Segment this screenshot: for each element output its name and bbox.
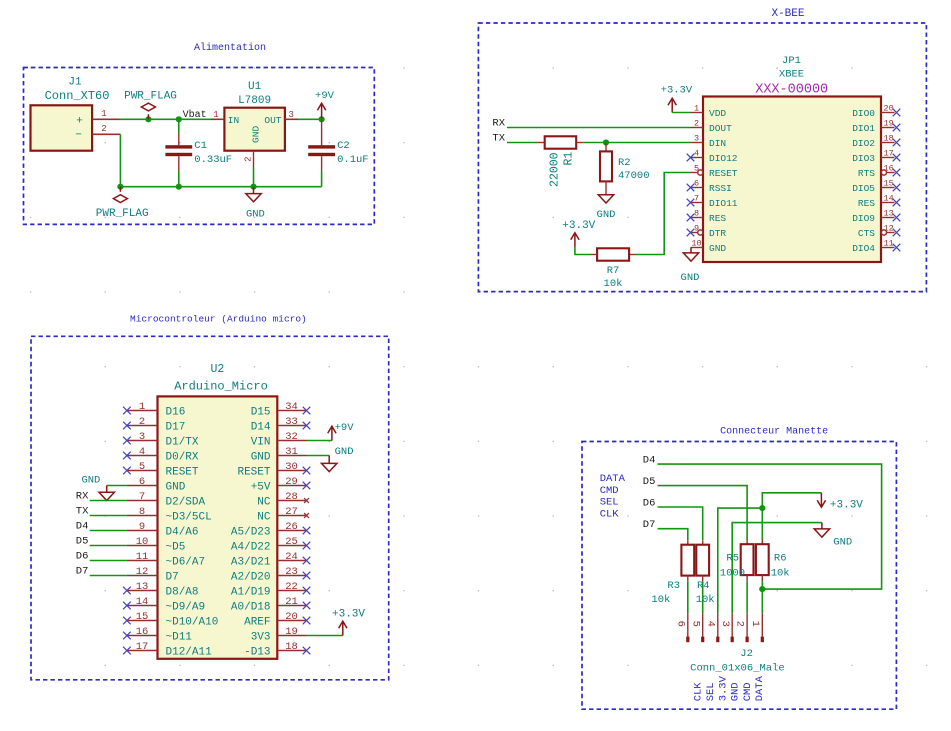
no-connect X on JP1 pin 19 [893, 124, 901, 132]
svg-text:R6: R6 [774, 552, 787, 564]
svg-text:D6: D6 [643, 498, 656, 510]
svg-text:GND: GND [166, 482, 186, 494]
JP1 pin 9 DTR [691, 232, 698, 234]
svg-text:~D5: ~D5 [166, 542, 186, 554]
svg-text:A5/D23: A5/D23 [231, 527, 271, 539]
wire net D7 to U2 [90, 575, 127, 577]
svg-text:11: 11 [884, 239, 894, 249]
ground symbol GND (Alimentation) [253, 187, 255, 194]
no-connect X on JP1 pin 15 [893, 184, 901, 192]
svg-text:32: 32 [285, 431, 298, 443]
svg-text:25: 25 [285, 536, 298, 548]
junction rail at J1 branch [117, 184, 123, 190]
junction at +9V node [319, 116, 325, 122]
svg-text:DIO0: DIO0 [852, 108, 875, 119]
svg-text:+3.3V: +3.3V [661, 85, 693, 97]
no-connect X on U2 pin 26 [303, 527, 311, 535]
svg-text:3: 3 [694, 134, 699, 144]
svg-text:D17: D17 [166, 422, 186, 434]
svg-text:1: 1 [213, 110, 218, 120]
svg-text:D6: D6 [76, 551, 89, 563]
svg-text:C2: C2 [337, 140, 350, 152]
svg-text:5: 5 [139, 461, 145, 473]
no-connect X on U2 pin 34 [303, 407, 311, 415]
svg-text:U2: U2 [210, 363, 224, 376]
svg-text:~D9/A9: ~D9/A9 [166, 602, 206, 614]
svg-text:NC: NC [257, 497, 271, 509]
NC mark on U2 pin 27 [304, 513, 309, 518]
svg-text:28: 28 [285, 491, 298, 503]
svg-text:PWR_FLAG: PWR_FLAG [96, 208, 149, 220]
connector J1 [31, 105, 93, 150]
no-connect X on JP1 pin 16 [893, 169, 901, 177]
svg-text:RX: RX [492, 118, 505, 130]
svg-text:D5: D5 [76, 536, 89, 548]
U1 pin 2 GND [253, 151, 255, 168]
no-connect X on U2 pin 4 [123, 452, 131, 460]
JP1 pin 7 DIO11 [691, 202, 704, 204]
svg-text:20: 20 [285, 611, 298, 623]
svg-text:RESET: RESET [709, 168, 738, 179]
wire net RX to U2 [90, 500, 127, 502]
resistor R7 [629, 254, 636, 256]
wire net D4 to U2 [90, 530, 127, 532]
svg-text:A0/D18: A0/D18 [231, 602, 271, 614]
svg-text:6: 6 [694, 179, 699, 189]
wire R7 to +3.3V [575, 247, 591, 255]
svg-text:17: 17 [884, 149, 894, 159]
svg-text:VDD: VDD [709, 108, 726, 119]
U1 pin 3 [285, 118, 298, 120]
svg-text:SEL: SEL [600, 497, 619, 509]
power symbol +3.3V (R7) [571, 233, 579, 247]
U1 pin 1 [211, 118, 224, 120]
JP1 pin 8 RES [691, 217, 704, 219]
svg-text:16: 16 [136, 626, 149, 638]
wire RESET to R7 [636, 173, 691, 255]
JP1 pin 2 DOUT [691, 127, 704, 129]
microcontroller U2 Arduino_Micro body [158, 396, 278, 658]
svg-text:Arduino_Micro: Arduino_Micro [174, 380, 268, 394]
J2 pin 3 [731, 613, 733, 637]
svg-text:PWR_FLAG: PWR_FLAG [124, 91, 177, 103]
svg-text:3V3: 3V3 [251, 632, 271, 644]
svg-text:SEL: SEL [705, 682, 717, 701]
ground symbol GND (U2 pin 6) [106, 486, 108, 493]
svg-text:TX: TX [76, 506, 89, 518]
svg-text:D16: D16 [166, 407, 186, 419]
svg-text:R4: R4 [697, 580, 710, 592]
JP1 pin 16 RTS [887, 172, 895, 174]
no-connect X on U2 pin 3 [123, 437, 131, 445]
svg-text:6: 6 [674, 621, 686, 627]
no-connect X on U2 pin 15 [123, 617, 131, 625]
svg-text:DOUT: DOUT [709, 123, 732, 134]
no-connect X on U2 pin 20 [303, 617, 311, 625]
svg-text:22: 22 [285, 581, 298, 593]
resistor R2 [605, 143, 607, 152]
svg-text:CLK: CLK [693, 682, 705, 702]
svg-text:XXX-00000: XXX-00000 [755, 82, 828, 97]
svg-text:Vbat: Vbat [183, 109, 207, 121]
J2 pin 5 [702, 613, 704, 637]
wire net TX to U2 [90, 515, 127, 517]
U2 pin 1 D16 [127, 410, 158, 412]
no-connect X on JP1 pin 4 [687, 154, 695, 162]
no-connect X on U2 pin 25 [303, 542, 311, 550]
no-connect X on JP1 pin 18 [893, 139, 901, 147]
svg-text:D0/RX: D0/RX [166, 452, 199, 464]
wire +3.3V to VDD pin [672, 112, 690, 114]
no-connect X on JP1 pin 8 [687, 214, 695, 222]
JP1 pin 20 DIO0 [881, 112, 895, 114]
JP1 pin 6 RSSI [691, 187, 704, 189]
JP1 pin 18 DIO2 [881, 142, 895, 144]
J1 pin 1 [92, 118, 119, 120]
svg-text:19: 19 [285, 626, 298, 638]
wire U2 3V3 to +3.3V [307, 635, 343, 637]
no-connect X on JP1 pin 12 [893, 229, 901, 237]
U2 pin 8 ~D3/5CL [127, 515, 158, 517]
svg-text:14: 14 [136, 596, 149, 608]
svg-text:34: 34 [285, 401, 298, 413]
svg-text:R5: R5 [726, 552, 739, 564]
section frame Microcontroleur [31, 336, 389, 680]
power symbol +3.3V (JP1 VDD) [668, 98, 676, 112]
wire U2 pin31 to GND [307, 455, 330, 457]
svg-text:13: 13 [884, 209, 894, 219]
svg-text:2: 2 [101, 124, 106, 134]
svg-text:12: 12 [884, 224, 894, 234]
JP1 pin 15 DIO5 [881, 187, 895, 189]
svg-text:D1/TX: D1/TX [166, 437, 199, 449]
svg-text:-D13: -D13 [244, 647, 270, 659]
svg-text:5: 5 [689, 621, 701, 627]
wire U1 GND to ground rail [253, 168, 255, 187]
wire GND to J2 pin 3 [732, 523, 822, 614]
svg-text:J1: J1 [68, 77, 82, 89]
no-connect X on JP1 pin 7 [687, 199, 695, 207]
section frame X-BEE [478, 23, 926, 292]
svg-text:X-BEE: X-BEE [771, 8, 804, 20]
svg-text:NC: NC [257, 512, 271, 524]
JP1 pin 12 CTS [887, 232, 895, 234]
U2 pin 17 D12/A11 [127, 650, 158, 652]
U2 pin 11 ~D6/A7 [127, 560, 158, 562]
svg-text:+5V: +5V [251, 482, 271, 494]
U2 pin 33 D14 [277, 425, 306, 427]
svg-text:4: 4 [139, 446, 145, 458]
svg-text:7: 7 [694, 194, 699, 204]
no-connect X on U2 pin 17 [123, 647, 131, 655]
no-connect X on U2 pin 16 [123, 632, 131, 640]
svg-text:4: 4 [694, 149, 699, 159]
no-connect X on U2 pin 14 [123, 602, 131, 610]
svg-text:1: 1 [139, 401, 145, 413]
wire TX to R1 [507, 142, 538, 144]
wire U1 OUT to +9V node [298, 118, 322, 120]
svg-text:1: 1 [101, 109, 106, 119]
svg-text:D4: D4 [643, 455, 656, 467]
svg-text:2: 2 [244, 156, 254, 161]
resistor R1 [538, 142, 545, 144]
ground symbol GND (JP1 pin 10) [690, 248, 692, 253]
svg-text:+3.3V: +3.3V [562, 220, 595, 232]
svg-text:JP1: JP1 [782, 55, 801, 67]
power symbol +9V (U2 VIN) [328, 426, 336, 440]
junction on Vbat at PWR_FLAG [145, 116, 151, 122]
svg-text:0.33uF: 0.33uF [194, 154, 232, 166]
JP1 pin 5 RESET [691, 172, 698, 174]
no-connect X on U2 pin 22 [303, 587, 311, 595]
svg-text:22000: 22000 [549, 152, 562, 187]
JP1 pin 17 DIO3 [881, 157, 895, 159]
resistor R6 [761, 540, 763, 545]
svg-text:DIO5: DIO5 [852, 183, 875, 194]
svg-text:14: 14 [884, 194, 894, 204]
svg-text:15: 15 [884, 179, 894, 189]
U2 pin 5 RESET [127, 470, 158, 472]
svg-text:RESET: RESET [237, 467, 270, 479]
U2 pin 21 A0/D18 [277, 605, 306, 607]
svg-text:24: 24 [285, 551, 298, 563]
svg-text:9: 9 [694, 224, 699, 234]
svg-text:R2: R2 [618, 157, 631, 169]
U2 pin 3 D1/TX [127, 440, 158, 442]
wire U2 pin6 to GND [107, 485, 127, 487]
svg-text:Alimentation: Alimentation [194, 42, 266, 54]
wire net D5 to U2 [90, 545, 127, 547]
power symbol +9V [317, 103, 325, 118]
svg-text:OUT: OUT [264, 115, 281, 126]
svg-text:A4/D22: A4/D22 [231, 542, 271, 554]
svg-text:RES: RES [858, 198, 875, 209]
U2 pin 7 D2/SDA [127, 500, 158, 502]
U2 pin 34 D15 [277, 410, 306, 412]
svg-text:D14: D14 [251, 422, 271, 434]
svg-text:~D6/A7: ~D6/A7 [166, 557, 206, 569]
svg-text:Conn_01x06_Male: Conn_01x06_Male [690, 662, 785, 674]
svg-text:GND: GND [833, 537, 852, 549]
J2 pin 4 [717, 613, 719, 637]
svg-text:DIO1: DIO1 [852, 123, 875, 134]
svg-text:11: 11 [136, 551, 149, 563]
svg-text:10: 10 [136, 536, 149, 548]
wire R1 to DIN [583, 142, 690, 144]
svg-text:1: 1 [749, 621, 761, 627]
svg-text:A1/D19: A1/D19 [231, 587, 271, 599]
svg-text:D4: D4 [76, 521, 89, 533]
power symbol +3.3V (Manette, pointing down) [817, 493, 825, 508]
svg-text:17: 17 [136, 641, 149, 653]
svg-text:CMD: CMD [742, 682, 754, 701]
grid dots (decorative) [30, 67, 928, 666]
no-connect X on U2 pin 18 [303, 647, 311, 655]
svg-text:10k: 10k [651, 594, 670, 606]
svg-text:RX: RX [76, 491, 89, 503]
svg-text:Conn_XT60: Conn_XT60 [45, 89, 110, 103]
svg-text:GND: GND [81, 475, 100, 487]
no-connect X on U2 pin 29 [303, 482, 311, 490]
svg-text:16: 16 [884, 164, 894, 174]
svg-text:D4/A6: D4/A6 [166, 527, 199, 539]
svg-text:DATA: DATA [600, 473, 626, 485]
svg-text:GND: GND [597, 209, 616, 221]
wire J1 pin2 down to rail [119, 134, 121, 186]
svg-text:18: 18 [285, 641, 298, 653]
section frame Connecteur Manette [582, 442, 896, 710]
svg-text:1: 1 [694, 104, 699, 114]
svg-text:33: 33 [285, 416, 298, 428]
svg-text:D12/A11: D12/A11 [166, 647, 213, 659]
U2 pin 6 GND [127, 485, 158, 487]
svg-text:+3.3V: +3.3V [332, 609, 365, 621]
svg-text:Connecteur Manette: Connecteur Manette [720, 427, 828, 438]
U2 pin 2 D17 [127, 425, 158, 427]
svg-text:19: 19 [884, 119, 894, 129]
U2 pin 25 A4/D22 [277, 545, 306, 547]
svg-text:GND: GND [251, 452, 271, 464]
junction on Vbat at C1 [176, 116, 182, 122]
resistor R4 [702, 540, 704, 545]
svg-text:A2/D20: A2/D20 [231, 572, 271, 584]
U2 pin 14 ~D9/A9 [127, 605, 158, 607]
no-connect X on U2 pin 24 [303, 557, 311, 565]
regulator U1 L7809 [224, 108, 285, 151]
svg-text:18: 18 [884, 134, 894, 144]
wire +3.3V rail (Manette) [762, 493, 821, 540]
power flag PWR_FLAG (top) [147, 114, 149, 119]
svg-text:D5: D5 [643, 476, 656, 488]
svg-text:+9V: +9V [335, 422, 355, 434]
section frame Alimentation [24, 68, 375, 225]
svg-text:9: 9 [139, 521, 145, 533]
svg-text:VIN: VIN [251, 437, 271, 449]
svg-text:GND: GND [335, 446, 354, 458]
svg-text:10k: 10k [604, 278, 623, 290]
no-connect X on JP1 pin 20 [893, 109, 901, 117]
U2 pin 15 ~D10/A10 [127, 620, 158, 622]
resistor R3 [687, 540, 689, 545]
J1 pin 2 [92, 133, 120, 135]
svg-text:29: 29 [285, 476, 298, 488]
U2 pin 22 A1/D19 [277, 590, 306, 592]
svg-text:DIO12: DIO12 [709, 153, 738, 164]
U2 pin 12 D7 [127, 575, 158, 577]
wire U2 VIN to +9V [307, 440, 332, 442]
svg-text:47000: 47000 [618, 170, 650, 182]
svg-text:D15: D15 [251, 407, 271, 419]
wire D4 (Manette) [658, 464, 882, 589]
ground symbol GND (U2 pin 31) [328, 456, 330, 464]
svg-text:3: 3 [288, 110, 293, 120]
ground symbol GND (Manette) [821, 523, 823, 529]
J2 pin 6 [687, 613, 689, 637]
no-connect X on U2 pin 2 [123, 422, 131, 430]
svg-text:AREF: AREF [244, 617, 270, 629]
svg-text:15: 15 [136, 611, 149, 623]
svg-text:Microcontroleur (Arduino micro: Microcontroleur (Arduino micro) [130, 313, 307, 324]
wire D5 to R5 [658, 486, 748, 540]
svg-text:R3: R3 [667, 580, 680, 592]
U2 pin 32 VIN [277, 440, 306, 442]
NC mark on U2 pin 28 [304, 498, 309, 503]
svg-text:DIN: DIN [709, 138, 726, 149]
U2 pin 24 A3/D21 [277, 560, 306, 562]
svg-text:27: 27 [285, 506, 298, 518]
no-connect X on JP1 pin 17 [893, 154, 901, 162]
capacitor C2 [321, 119, 323, 145]
svg-text:12: 12 [136, 566, 149, 578]
junction +3.3V rail at pin4 branch [759, 505, 765, 511]
svg-text:26: 26 [285, 521, 298, 533]
junction on DIN net at R2 [603, 139, 609, 145]
JP1 pin 4 DIO12 [691, 157, 704, 159]
junction rail at C1 [176, 184, 182, 190]
svg-text:D8/A8: D8/A8 [166, 587, 199, 599]
no-connect X on JP1 pin 11 [893, 244, 901, 252]
JP1 pin 1 VDD [691, 112, 704, 114]
U2 pin 9 D4/A6 [127, 530, 158, 532]
svg-text:30: 30 [285, 461, 298, 473]
svg-text:4: 4 [704, 621, 716, 627]
U2 pin 19 3V3 [277, 635, 306, 637]
no-connect X on U2 pin 21 [303, 602, 311, 610]
no-connect X on JP1 pin 13 [893, 214, 901, 222]
svg-text:DIO11: DIO11 [709, 198, 738, 209]
svg-text:TX: TX [492, 133, 505, 145]
no-connect X on JP1 pin 6 [687, 184, 695, 192]
svg-text:DIO9: DIO9 [852, 213, 875, 224]
U2 pin 23 A2/D20 [277, 575, 306, 577]
JP1 pin 13 DIO9 [881, 217, 895, 219]
wire 3.3V to J2 pin 4 [718, 508, 763, 613]
wire J1 pin1 to U1 IN (net Vbat) [120, 118, 212, 120]
svg-text:20: 20 [884, 104, 894, 114]
svg-text:A3/D21: A3/D21 [231, 557, 271, 569]
svg-text:IN: IN [228, 115, 239, 126]
ground symbol GND (R2) [598, 195, 613, 203]
svg-text:3.3V: 3.3V [717, 675, 729, 701]
svg-text:~D11: ~D11 [166, 632, 193, 644]
junction rail at U1 GND [250, 184, 256, 190]
wire D7 to R3 [658, 529, 688, 540]
svg-text:D7: D7 [76, 566, 89, 578]
svg-text:GND: GND [709, 243, 726, 254]
svg-text:GND: GND [681, 272, 700, 284]
ground rail wire [120, 186, 321, 188]
wire net D6 to U2 [90, 560, 127, 562]
J2 pin 1 [761, 613, 763, 637]
svg-text:~D3/5CL: ~D3/5CL [166, 512, 212, 524]
svg-text:J2: J2 [740, 648, 753, 660]
svg-text:3: 3 [719, 621, 731, 627]
svg-text:+: + [76, 116, 83, 128]
svg-text:D2/SDA: D2/SDA [166, 497, 206, 509]
no-connect X on U2 pin 33 [303, 422, 311, 430]
svg-text:XBEE: XBEE [779, 69, 804, 81]
U2 pin 28 NC [277, 500, 306, 502]
svg-text:3: 3 [139, 431, 145, 443]
U2 pin 4 D0/RX [127, 455, 158, 457]
U2 pin 29 +5V [277, 485, 306, 487]
svg-text:R1: R1 [563, 152, 576, 166]
svg-text:8: 8 [694, 209, 699, 219]
svg-text:0.1uF: 0.1uF [337, 154, 369, 166]
svg-text:23: 23 [285, 566, 298, 578]
U2 pin 20 AREF [277, 620, 306, 622]
U2 pin 18 -D13 [277, 650, 306, 652]
